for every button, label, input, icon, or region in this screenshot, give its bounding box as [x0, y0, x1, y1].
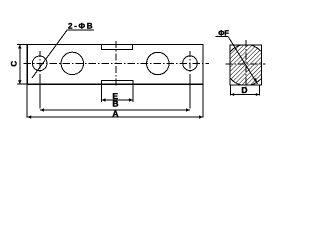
dim A arrow left	[27, 115, 31, 118]
svg-text:D: D	[241, 85, 247, 95]
side view centerline horizontal	[226, 63, 266, 65]
dim C extension bottom	[17, 83, 27, 85]
svg-text:2-ΦB: 2-ΦB	[68, 21, 94, 30]
dim A extension right	[202, 84, 204, 117]
hole large right	[147, 52, 169, 74]
dim E extension right	[132, 84, 134, 102]
dim C line	[19, 45, 21, 85]
leader 2-phiB	[32, 30, 67, 78]
dim C arrow bottom	[18, 80, 22, 84]
underline phiF	[216, 36, 229, 38]
side view square	[230, 45, 262, 85]
centerline vertical plate center	[115, 41, 117, 86]
dim C arrow top	[18, 45, 22, 49]
dim B arrow left	[40, 108, 44, 111]
dim E arrow left	[102, 98, 106, 101]
dim D arrow right	[256, 93, 259, 96]
dim A extension left	[26, 84, 28, 117]
top notch	[102, 45, 133, 50]
dim E extension left	[101, 84, 103, 102]
dim D line	[231, 94, 260, 96]
dim B line	[40, 109, 190, 111]
hole small right	[183, 56, 198, 71]
centerline small hole left	[39, 51, 41, 78]
svg-text:ΦF: ΦF	[218, 28, 229, 37]
dim E line	[102, 99, 134, 101]
hole small left	[32, 56, 47, 71]
dim E arrow right	[129, 98, 133, 101]
dim D arrow left	[231, 93, 235, 96]
extension line B left	[39, 78, 41, 109]
dim D extension left	[230, 85, 232, 96]
underline 2-phiB	[67, 29, 95, 31]
leader phiF	[228, 37, 257, 84]
dim A line	[27, 116, 203, 118]
leader phiF arrowhead	[254, 78, 258, 84]
svg-text:B: B	[112, 98, 118, 108]
plate outline	[27, 45, 203, 85]
dim A arrow right	[199, 115, 203, 118]
side view centerline vertical	[245, 40, 247, 89]
dim C extension top	[17, 44, 27, 46]
centerline small hole right	[189, 51, 191, 78]
hole large left	[61, 52, 83, 74]
svg-text:C: C	[10, 61, 19, 67]
circle F hatched (clipped to square)	[225, 45, 266, 86]
centerline horizontal main	[24, 62, 210, 64]
dim B arrow right	[186, 108, 190, 111]
svg-text:A: A	[112, 109, 118, 119]
bottom notch	[102, 81, 134, 85]
dim D extension right	[259, 85, 261, 96]
extension line B right	[189, 78, 191, 109]
